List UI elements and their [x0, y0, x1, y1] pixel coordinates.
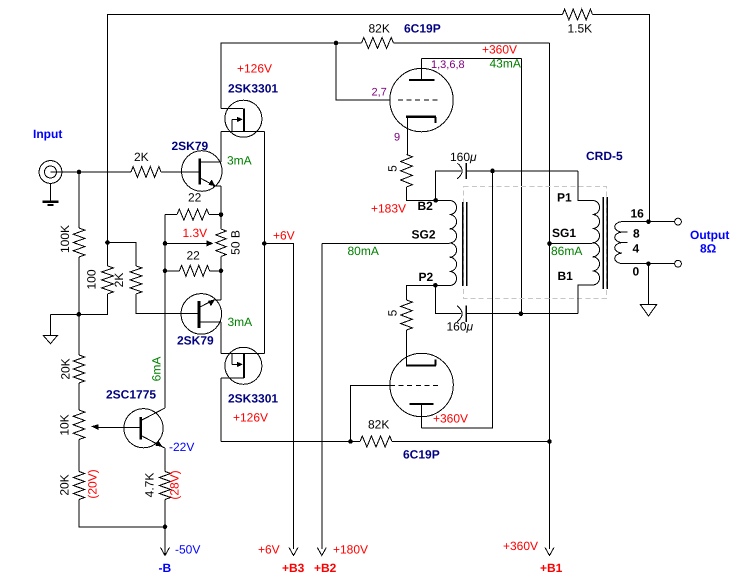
resistor R6 2K [130, 266, 142, 294]
svg-text:2SK3301: 2SK3301 [228, 82, 278, 96]
svg-text:-B: -B [159, 561, 172, 575]
wire P2 to 5 ohm lower [407, 285, 436, 300]
svg-text:2SC1775: 2SC1775 [106, 388, 156, 402]
output terminal upper [675, 218, 682, 225]
winding W2 primary P1-SG1-B1 [593, 200, 600, 285]
wire SG1 tap to +B1 rail [550, 243, 593, 245]
svg-text:B1: B1 [558, 269, 574, 283]
wire C1 to P1 feed [466, 170, 578, 172]
svg-text:+126V: +126V [233, 411, 268, 425]
wire Q3 emitter to 4.7K [164, 448, 166, 472]
wire -50V bottom rail [79, 500, 165, 527]
wire junction to 82K lower [351, 441, 361, 443]
wire +6V node to B3 rail [264, 244, 293, 550]
wire 22 upper right to rail [209, 214, 221, 216]
wire 4.7K to -50V node [164, 500, 166, 527]
svg-text:8Ω: 8Ω [700, 242, 717, 256]
tube U2 cathode [406, 330, 436, 366]
svg-text:2SK3301: 2SK3301 [228, 392, 278, 406]
tube U2 6C19P envelope [390, 353, 453, 416]
wire junction to 82K [336, 42, 362, 44]
svg-text:+6V: +6V [273, 229, 295, 243]
resistor R1 2K input [131, 167, 161, 178]
potentiometer VR2 50B [216, 215, 226, 271]
wire +126V top rail from 2SK3301 drain [221, 43, 336, 109]
svg-text:+360V: +360V [503, 539, 538, 553]
transistor Q1 2SK79 upper [182, 151, 223, 192]
tube U1 cathode [406, 117, 436, 155]
tube U2 plate [410, 404, 434, 428]
node dot input/100K [77, 170, 82, 175]
svg-text:SG2: SG2 [412, 228, 436, 242]
svg-text:2SK79: 2SK79 [172, 139, 209, 153]
svg-text:6C19P: 6C19P [404, 22, 441, 36]
wire +B1 rail vertical [549, 43, 551, 549]
svg-text:10K: 10K [58, 414, 72, 435]
wire 5 ohm to B2 node [407, 187, 436, 200]
node dot +B1 rail bottom [547, 439, 552, 444]
svg-text:P1: P1 [557, 191, 572, 205]
wire left rail of 22 network [164, 215, 166, 408]
svg-text:22: 22 [187, 249, 201, 263]
tube U1 grid dashed [398, 99, 439, 101]
input jack ground [43, 184, 59, 206]
resistor R10 5 ohm upper [401, 155, 413, 188]
wire 2K to Q2 base [136, 294, 198, 314]
svg-text:+6V: +6V [258, 543, 280, 557]
wire Q1 collector up to M1 [220, 132, 222, 163]
svg-text:22: 22 [188, 191, 202, 205]
mosfet M1 2SK3301 upper [221, 100, 264, 137]
wire tube2 grid down to junction [351, 386, 391, 442]
svg-text:2SK79: 2SK79 [177, 334, 214, 348]
wire feedback node to 2K branch [108, 243, 137, 266]
svg-text:9: 9 [394, 132, 400, 144]
wire jack node down to 100K [78, 172, 80, 228]
resistor R-G1 82K upper [362, 38, 394, 49]
svg-text:1.5K: 1.5K [568, 22, 593, 36]
ground symbol left [44, 314, 58, 343]
svg-text:86mA: 86mA [551, 244, 582, 258]
wire P2 down to C2 [435, 285, 460, 313]
wire 100K to ground rail [78, 257, 80, 314]
resistor R4 20K lower [73, 472, 85, 500]
svg-text:6mA: 6mA [150, 357, 164, 382]
svg-text:+183V: +183V [371, 202, 406, 216]
svg-text:100: 100 [85, 269, 99, 289]
capacitor C2 160u [457, 306, 466, 322]
svg-text:SG1: SG1 [552, 226, 576, 240]
wire 2K to Q1 base [161, 171, 199, 173]
ground symbol output [640, 305, 656, 316]
dashed outline transformer CRD-5 [464, 187, 607, 299]
wire 1.5K to output 16-tap [593, 15, 650, 222]
svg-text:3mA: 3mA [227, 154, 252, 168]
wire 10K to 20K lower [78, 440, 80, 472]
core of transformer left [463, 202, 467, 286]
wire +B2 rail vertical [321, 243, 323, 549]
resistor R-G2 82K lower [360, 436, 392, 447]
svg-text:2K: 2K [134, 150, 149, 164]
svg-text:160μ: 160μ [450, 150, 477, 164]
svg-text:CRD-5: CRD-5 [586, 149, 623, 163]
svg-text:16: 16 [631, 207, 645, 221]
wire M1 source down to M2 drain [263, 132, 265, 354]
wire ground rail down to 20K [78, 314, 80, 355]
svg-text:B2: B2 [418, 199, 434, 213]
wire M2 source down to +126V rail [220, 378, 222, 442]
svg-text:43mA: 43mA [490, 57, 521, 71]
resistor R-NFB 1.5K [563, 9, 593, 20]
wire 16 tap [622, 221, 675, 223]
svg-text:Input: Input [33, 127, 62, 141]
tap stub 4 [622, 242, 628, 244]
resistor R2 100K [73, 228, 85, 257]
svg-text:50 B: 50 B [229, 230, 243, 255]
winding W3 secondary 16-8-4-0 [615, 222, 622, 264]
node dot B2 [433, 198, 438, 203]
svg-text:8: 8 [633, 227, 640, 241]
input jack connector [39, 161, 62, 184]
output terminal lower [675, 260, 682, 267]
wire P1 feed down [578, 171, 592, 201]
wire tube1 grid to +126V node [336, 43, 390, 100]
winding W1 primary B2-SG2-P2 [435, 200, 456, 285]
svg-text:80mA: 80mA [348, 244, 379, 258]
svg-text:5: 5 [386, 309, 400, 316]
svg-text:-22V: -22V [169, 440, 194, 454]
svg-text:+360V: +360V [482, 43, 517, 57]
svg-text:(20V): (20V) [86, 469, 100, 498]
svg-text:+180V: +180V [333, 543, 368, 557]
wire SG2 tap to B2 rail [322, 242, 450, 244]
wire 22 lower right to rail [210, 270, 222, 272]
svg-text:+126V: +126V [237, 62, 272, 76]
svg-text:20K: 20K [58, 358, 72, 379]
wire feedback node to 100 [107, 243, 109, 266]
node dot SG1 [547, 241, 552, 246]
node dot C1/plate2 line [490, 169, 495, 174]
node dot +126V bottom junction [348, 439, 353, 444]
wire U1 plate to 43mA line [422, 57, 522, 59]
svg-text:+360V: +360V [433, 412, 468, 426]
wire Q1 emitter down to 22 network [220, 186, 222, 214]
wiper arrow of 10K pot to Q3 base [91, 424, 140, 430]
wire 43mA line down to B1 bottom wire [521, 58, 523, 313]
power arrow +B3 [289, 548, 298, 556]
tube U2 grid dashed [390, 385, 439, 387]
svg-text:82K: 82K [368, 418, 389, 432]
wire 20K to 10K pot [78, 383, 80, 410]
resistor R11 5 ohm lower [401, 300, 413, 330]
svg-text:3mA: 3mA [228, 315, 253, 329]
potentiometer VR1 10K [73, 410, 85, 440]
node dot ground rail [77, 312, 82, 317]
svg-text:160μ: 160μ [447, 320, 474, 334]
transistor Q3 2SC1775 [124, 409, 165, 448]
core of transformer right [603, 197, 607, 289]
svg-text:82K: 82K [369, 22, 390, 36]
node dot C2/plate1 line [519, 311, 524, 316]
node dot feedback junction [105, 240, 110, 245]
wire Q2 collector down to M2 [220, 322, 222, 354]
wiper arrow of 50B pot [165, 240, 214, 246]
wire top feedback rail (output to 1.5K to input stage) [108, 15, 563, 243]
wire Q2 emitter up to 22 network [220, 271, 222, 300]
node dot 0 tap [646, 261, 651, 266]
wire ground rail [51, 313, 109, 315]
svg-text:+B3: +B3 [282, 561, 305, 575]
svg-text:0: 0 [633, 265, 640, 279]
node dot wiper tap [163, 241, 168, 246]
wire 82K to +360V corner [394, 42, 550, 44]
svg-text:P2: P2 [419, 270, 434, 284]
mosfet M2 2SK3301 lower [221, 347, 264, 384]
node dot 16 tap [646, 219, 651, 224]
resistor R9 4.7K [159, 472, 171, 500]
svg-text:4.7K: 4.7K [143, 473, 157, 498]
svg-text:1,3,6,8: 1,3,6,8 [431, 59, 465, 71]
svg-text:5: 5 [386, 165, 400, 172]
node dot +6V [262, 241, 267, 246]
wire +126V bottom rail [221, 441, 351, 443]
svg-text:4: 4 [633, 242, 640, 256]
svg-text:2K: 2K [112, 273, 126, 288]
wire C2 to B1 drop [466, 313, 578, 315]
wire 6mA rail down to Q3 collector [142, 408, 165, 420]
svg-text:100K: 100K [58, 225, 72, 253]
node dot 22 lower right [219, 269, 224, 274]
wire B2 up to C1 [436, 171, 461, 201]
wire 0 tap to ground [648, 264, 650, 305]
svg-text:2,7: 2,7 [372, 87, 387, 99]
transistor Q2 2SK79 lower [181, 294, 222, 335]
wire B1 drop [578, 285, 593, 314]
power arrow +B1 [545, 548, 554, 556]
svg-text:6C19P: 6C19P [403, 448, 440, 462]
resistor R8 22 lower [165, 265, 210, 276]
power arrow -B [161, 527, 170, 556]
svg-text:(28V): (28V) [168, 470, 182, 499]
wire U2 plate to C1 line [422, 171, 493, 428]
node dot 22 upper right [219, 212, 224, 217]
wire 100 to ground rail [107, 294, 109, 314]
node dot 22 lower left [163, 269, 168, 274]
node dot P2 [433, 283, 438, 288]
power arrow +B2 [317, 548, 326, 556]
tube U1 plate [409, 58, 435, 80]
svg-text:+B1: +B1 [540, 561, 563, 575]
capacitor C1 160u [457, 163, 466, 179]
svg-text:1.3V: 1.3V [183, 226, 208, 240]
tube U1 6C19P envelope [390, 68, 453, 131]
node dot +126V top junction [334, 41, 339, 46]
wire 0 tap [622, 263, 675, 265]
svg-text:20K: 20K [58, 474, 72, 495]
wire input to 2K [62, 171, 131, 173]
wire 82K lower to +B1 rail [392, 441, 550, 443]
resistor R5 100 [102, 266, 114, 294]
svg-text:+B2: +B2 [314, 561, 337, 575]
tap stub 8 [622, 231, 628, 233]
svg-text:Output: Output [690, 228, 729, 242]
svg-text:-50V: -50V [175, 543, 200, 557]
wire 22 upper left elbow [165, 214, 177, 216]
resistor R3 20K upper [73, 355, 85, 383]
resistor R7 22 upper [177, 209, 209, 220]
node dot -50V [163, 525, 168, 530]
